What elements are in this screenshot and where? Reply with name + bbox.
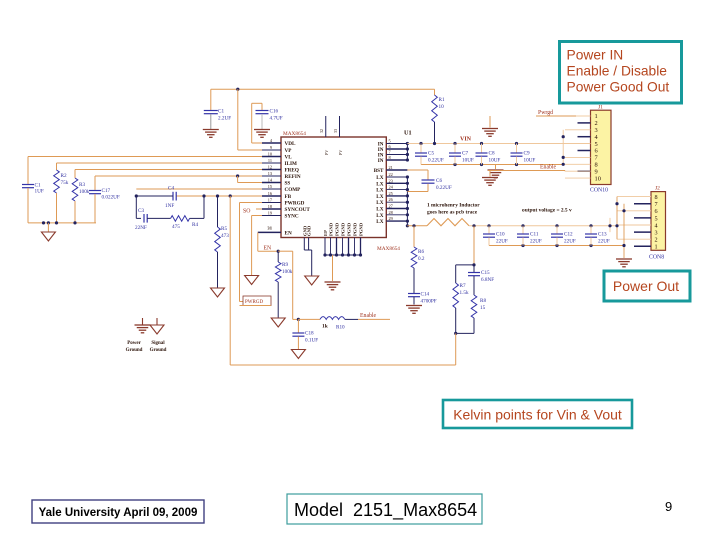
svg-text:1.5k: 1.5k [460,290,469,296]
svg-text:10: 10 [268,152,272,157]
svg-text:LX: LX [376,194,383,200]
svg-text:23: 23 [389,178,393,183]
svg-text:PGND: PGND [329,222,334,236]
svg-text:0.022UF: 0.022UF [102,195,120,201]
svg-text:5: 5 [655,215,658,222]
svg-text:BST: BST [374,168,384,174]
svg-text:1: 1 [655,244,658,251]
U1 right IN pin stubs (5-8) with bus [378,139,409,165]
capacitor C18 0.1UF [292,319,318,349]
svg-text:9: 9 [665,499,672,514]
svg-text:8: 8 [389,155,391,160]
wire VL net from C1 to U1 [28,156,262,158]
capacitor C10 22UF [483,226,508,246]
node Pwrgd label and wire [536,110,576,116]
svg-text:SO: SO [243,209,250,215]
op-amp U1 MAX8654 IC body [281,130,412,253]
svg-text:R6: R6 [418,249,424,255]
svg-text:R7: R7 [460,283,466,289]
svg-text:PGND: PGND [353,222,358,236]
signal ground for SYNC [245,276,259,285]
svg-text:LX: LX [376,188,383,194]
svg-text:VIN: VIN [460,137,472,143]
capacitor C5 0.22UF [415,144,444,165]
wire J1 feed vertical [562,130,565,166]
svg-text:Enable / Disable: Enable / Disable [567,64,668,79]
svg-text:J2: J2 [655,186,660,192]
footer Model box [287,494,482,524]
svg-text:C12: C12 [564,232,573,238]
svg-text:22UF: 22UF [530,239,542,245]
svg-text:C3: C3 [138,208,144,214]
svg-text:FREQ: FREQ [285,168,299,174]
svg-text:C4: C4 [168,186,174,192]
capacitor C13 22UF [585,226,610,246]
wire VOUT to divider [472,226,475,267]
svg-text:MAX8654: MAX8654 [377,246,400,252]
svg-text:PWRGD: PWRGD [245,300,263,305]
svg-text:100k: 100k [79,189,90,195]
resistor R4 475 [171,216,204,230]
legend text [126,341,167,353]
capacitor C14 4700PF [408,292,437,305]
svg-text:R10: R10 [336,325,345,331]
signal ground below R9 [271,318,285,327]
power ground under input caps [488,165,504,178]
svg-text:25: 25 [389,191,393,196]
wire REFIN net from C17 to U1 [95,175,262,177]
svg-text:MAX8654: MAX8654 [283,131,306,137]
svg-text:FB: FB [285,194,292,200]
power ground below Pwrgd [482,116,498,136]
wire EN to Enable pullup [278,251,300,321]
svg-text:PWRGD: PWRGD [285,201,305,207]
svg-text:28: 28 [389,210,393,215]
svg-text:PGND: PGND [359,222,364,236]
svg-text:22NF: 22NF [135,225,147,231]
resistor R6 0.2 [411,226,425,293]
capacitor C15 6.8NF [468,265,494,295]
svg-text:LX: LX [376,200,383,206]
signal ground below R5 [211,288,225,297]
capacitor C1 1UF [22,157,44,223]
svg-text:1NF: 1NF [165,203,174,209]
node SO label on SYNCOUT [243,209,262,215]
svg-text:PGND: PGND [341,222,346,236]
wire PWRGD net down to label [240,203,263,302]
svg-text:GND: GND [307,225,312,236]
ground rail for input components [28,221,96,232]
power ground under U1 PGND pins [325,281,341,283]
svg-text:C18: C18 [305,331,314,337]
svg-text:Pwrgd: Pwrgd [538,110,553,116]
svg-text:4: 4 [270,138,273,143]
power ground under C2 [203,129,219,131]
svg-text:12: 12 [268,165,272,170]
svg-text:SYNC: SYNC [285,214,299,220]
svg-text:C15: C15 [481,270,490,276]
wire SYNC net to ground [252,216,262,276]
capacitor C7 10UF [449,144,474,165]
svg-text:18: 18 [268,204,272,209]
U1 pin 31 EN stub [258,225,292,236]
svg-text:15: 15 [268,184,272,189]
svg-text:6: 6 [655,208,658,215]
wire EN net [258,232,280,252]
resistor R2 75k [54,163,69,223]
svg-text:100k: 100k [282,269,293,275]
resistor R8 15 [454,295,486,335]
svg-text:COMP: COMP [285,187,302,193]
wire input cap ground rail [421,163,563,166]
capacitor C2 2.2UF [204,89,231,129]
resistor R1 10 [432,89,445,143]
svg-text:LX: LX [376,219,383,225]
svg-text:C10: C10 [496,232,505,238]
junction REFIN/SS tie [236,174,262,182]
svg-text:10UF: 10UF [462,158,474,164]
svg-text:Power Out: Power Out [613,278,679,294]
wire output cap ground rail [489,244,624,247]
wire ILIM net from R2 to U1 [57,162,263,164]
svg-text:Power IN: Power IN [567,48,624,63]
svg-text:3: 3 [655,230,658,237]
svg-text:0.2: 0.2 [418,256,425,262]
footer Yale University box [32,500,204,523]
node Enable label at J1 [488,165,591,172]
svg-text:CON10: CON10 [590,188,608,194]
callout Kelvin points box [443,400,632,428]
svg-text:473: 473 [221,233,229,239]
node loop left vertical [135,196,137,218]
capacitor C4 1NF in series on FB [165,186,176,210]
svg-text:ILIM: ILIM [285,161,297,167]
capacitor C12 22UF [551,226,576,246]
svg-text:C7: C7 [462,151,468,157]
svg-text:10: 10 [439,104,445,110]
svg-text:21: 21 [389,165,393,170]
svg-text:Enable: Enable [540,165,557,171]
svg-text:0.22UF: 0.22UF [436,185,452,191]
svg-text:2: 2 [655,237,658,244]
node loop right vertical [203,196,205,218]
svg-text:4: 4 [655,222,658,229]
power ground below J2 [616,258,632,260]
svg-text:Signal: Signal [151,341,165,346]
svg-text:EN: EN [285,230,292,236]
svg-text:IN: IN [378,158,384,164]
svg-text:27: 27 [389,204,394,209]
svg-text:22: 22 [389,172,393,177]
svg-text:19: 19 [268,211,272,216]
svg-text:C8: C8 [489,151,495,157]
wire COMP net to U1 [136,188,262,190]
svg-text:C14: C14 [421,292,430,298]
svg-text:CON8: CON8 [649,255,664,261]
resistor R5 473 [215,196,229,288]
svg-text:33: 33 [333,129,338,133]
note inductor text [427,203,480,216]
svg-text:4700PF: 4700PF [421,299,437,305]
svg-text:C11: C11 [530,232,539,238]
svg-text:goes here as pcb trace: goes here as pcb trace [427,210,478,216]
svg-text:R8: R8 [480,298,486,304]
capacitor C6 0.22UF on BST [407,170,451,192]
svg-text:17: 17 [268,198,273,203]
svg-text:1k: 1k [322,324,328,330]
capacitor C8 10UF [476,144,501,165]
capacitor C9 10UF [511,144,536,165]
resistor R7 1.5k [453,265,474,334]
svg-text:R4: R4 [192,222,198,228]
svg-text:1 microhenry Inductor: 1 microhenry Inductor [427,203,480,209]
svg-text:31: 31 [267,225,272,230]
svg-text:475: 475 [172,224,180,230]
svg-text:7: 7 [389,150,392,155]
svg-text:Power Good Out: Power Good Out [567,80,670,95]
svg-text:14: 14 [268,178,273,183]
svg-text:LX: LX [376,207,383,213]
svg-text:10UF: 10UF [489,158,501,164]
svg-text:0.22UF: 0.22UF [428,158,444,164]
inductor pcb trace zigzag [407,219,469,228]
svg-text:C5: C5 [428,151,434,157]
svg-text:22UF: 22UF [496,239,508,245]
svg-text:output voltage = 2.5 v: output voltage = 2.5 v [522,208,572,214]
svg-text:C6: C6 [436,178,442,184]
svg-text:LX: LX [376,181,383,187]
svg-text:8: 8 [655,194,658,201]
svg-text:REFIN: REFIN [285,174,301,180]
svg-text:24: 24 [389,185,394,190]
capacitor C16 4.7UF [252,103,283,143]
svg-text:22UF: 22UF [564,239,576,245]
callout Power Out box [604,271,690,301]
legend power ground symbol [135,318,151,333]
svg-text:9: 9 [270,145,272,150]
svg-text:PGND: PGND [347,222,352,236]
svg-text:6: 6 [389,144,392,149]
svg-text:Yale University April 09, 2009: Yale University April 09, 2009 [39,507,198,519]
svg-text:Ground: Ground [150,348,167,353]
svg-text:Power: Power [127,341,141,346]
power ground under C16 [254,129,270,131]
svg-text:C17: C17 [102,188,111,194]
svg-text:R5: R5 [221,226,227,232]
wire FREQ net from R3 to U1 [75,169,262,171]
svg-text:SYNCOUT: SYNCOUT [285,207,311,213]
svg-text:PGND: PGND [335,222,340,236]
svg-text:0.1UF: 0.1UF [305,338,318,344]
resistor R9 100k on EN [275,251,292,318]
svg-text:LX: LX [376,213,383,219]
resistor R3 100k [72,170,90,223]
power ground below Enable J1 [482,171,498,186]
wire J2 feed verticals [608,197,625,258]
U1 bottom EP and PGND pins [323,222,364,281]
svg-text:R2: R2 [61,173,67,179]
svg-text:26: 26 [389,197,394,202]
connector J1 CON10 [590,105,611,194]
svg-text:10UF: 10UF [524,158,536,164]
svg-text:16: 16 [268,191,273,196]
U1 right LX pin stubs (22-29) with bus [376,172,409,227]
svg-text:PV: PV [324,150,329,155]
svg-text:U1: U1 [404,130,412,137]
capacitor C3 22NF [135,208,171,231]
svg-text:J1: J1 [598,105,603,111]
svg-text:6.8NF: 6.8NF [481,277,494,283]
svg-text:4.7UF: 4.7UF [270,116,283,122]
U1 BST pin 21 stub [374,165,408,174]
connector J2 CON8 [649,186,666,261]
svg-text:VP: VP [285,148,293,154]
U1 left pin stubs, numbers and names [262,138,310,220]
wire top VDD rail [211,88,435,91]
svg-text:SS: SS [285,181,291,187]
legend signal ground symbol [150,318,164,334]
svg-text:C9: C9 [524,151,530,157]
resistor R10 1k [298,317,358,331]
svg-text:Model 2151_Max8654: Model 2151_Max8654 [294,500,477,521]
wire VIN rail [407,142,590,145]
capacitor C11 22UF [517,226,542,246]
svg-text:R9: R9 [282,262,288,268]
svg-text:Kelvin points for Vin & Vout: Kelvin points for Vin & Vout [453,407,622,423]
svg-text:5: 5 [389,139,391,144]
svg-text:29: 29 [389,216,393,221]
svg-text:2.2UF: 2.2UF [218,116,231,122]
svg-text:10: 10 [595,175,601,182]
svg-text:VL: VL [285,155,293,161]
wire VP net from rail to U1 [238,89,262,150]
wire FB sense return [230,196,456,365]
svg-text:C13: C13 [598,232,607,238]
U1 top pins 32 33 [319,116,343,155]
svg-text:R3: R3 [79,182,85,188]
signal ground left rail [41,232,55,241]
svg-text:VDL: VDL [285,141,296,147]
svg-text:Ground: Ground [126,348,143,353]
svg-text:32: 32 [319,129,324,133]
capacitor C17 0.022UF [89,176,120,223]
svg-text:22UF: 22UF [598,239,610,245]
svg-text:Enable: Enable [360,313,377,319]
svg-text:EN: EN [264,246,273,252]
svg-text:C16: C16 [270,109,279,115]
svg-text:75k: 75k [61,180,69,186]
signal ground below C18 [291,350,305,359]
signal ground under U1 GND pins [305,276,319,285]
J2 pin stub wires [617,197,651,247]
svg-text:13: 13 [268,171,272,176]
svg-text:11: 11 [268,158,272,163]
wire FB net with junctions [135,194,262,197]
svg-text:7: 7 [655,201,658,208]
svg-text:1UF: 1UF [35,189,44,195]
U1 bottom GND pins [302,225,311,276]
power ground under C14 [406,305,422,307]
svg-text:15: 15 [480,305,486,311]
J1 pin stub wires [563,116,590,178]
svg-text:PV: PV [338,150,343,155]
node PWRGD offpage label [240,296,272,306]
wire VOUT rail [469,224,617,227]
svg-text:R1: R1 [439,97,445,103]
svg-text:LX: LX [376,175,383,181]
node Enable label [358,313,390,319]
svg-text:EP: EP [323,230,328,236]
svg-text:C1: C1 [218,109,224,115]
callout Power IN box [560,42,682,104]
